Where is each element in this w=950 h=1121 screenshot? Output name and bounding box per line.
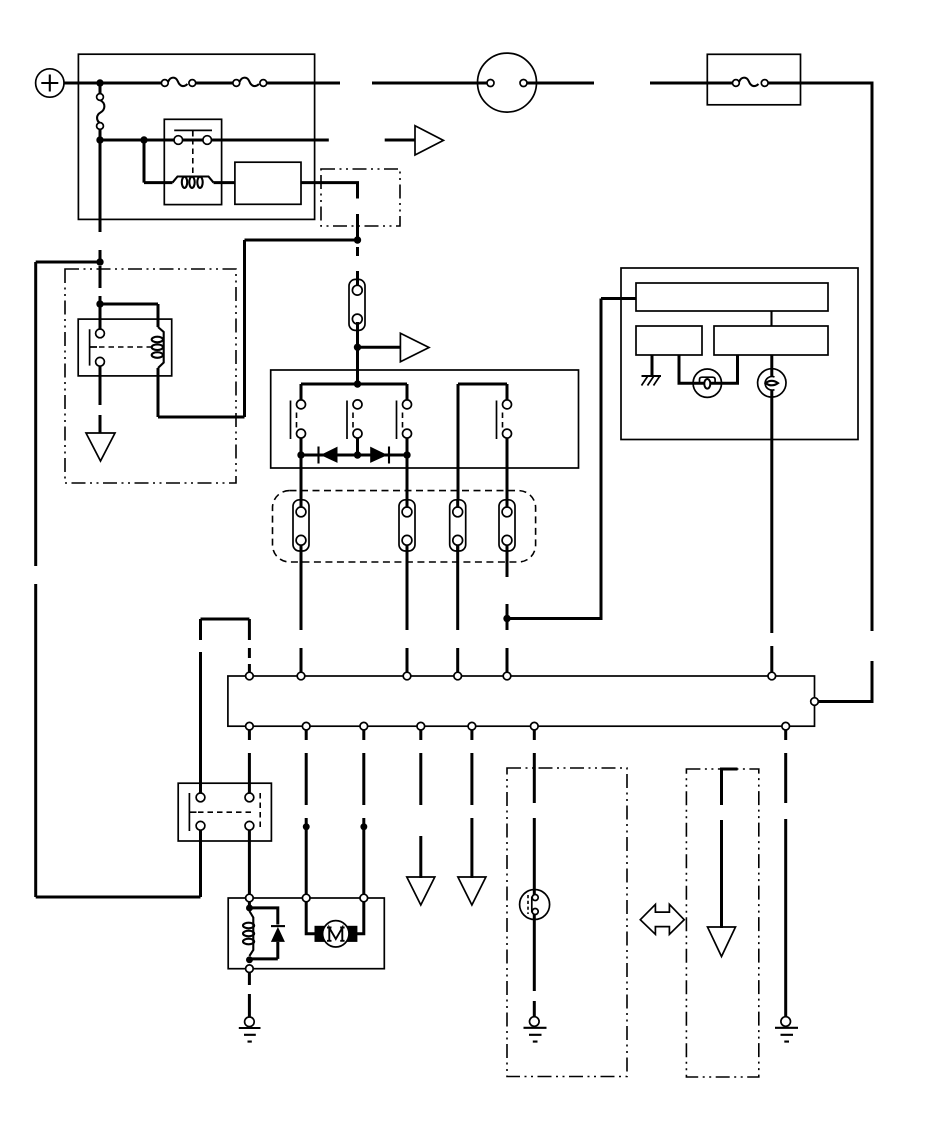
bulb connector (circle) xyxy=(520,890,550,921)
bus terminal bottom 1 xyxy=(246,722,254,730)
relay R3 terminal 2 xyxy=(245,793,254,802)
ground G502 xyxy=(775,1028,798,1042)
node: junction coil feed xyxy=(140,136,147,143)
wire left rect to hatch ground xyxy=(651,355,654,376)
wire right rect to lamp 1 xyxy=(721,355,738,383)
wire connector C2 to bus xyxy=(300,545,303,673)
relay R3 coil link (dashed vertical) xyxy=(259,793,261,831)
relay R1 terminal right xyxy=(203,136,212,145)
dash-dot box (bottom middle) xyxy=(507,768,627,1077)
wire crossover to bus xyxy=(201,619,250,640)
wire coil to control unit xyxy=(214,181,236,184)
wire coil tap to R2 coil xyxy=(100,304,158,327)
switch S3 xyxy=(397,400,412,439)
connector C2 xyxy=(293,500,309,552)
bus terminal bottom 6 xyxy=(531,722,539,730)
node: junction at battery feed xyxy=(96,79,103,86)
wire dashes into bus xyxy=(248,648,251,673)
motor box terminal 2 xyxy=(302,894,310,902)
coil L1 (vertical) xyxy=(243,911,254,956)
wire C1 to junction B xyxy=(356,322,359,351)
wire connector C4 to bus xyxy=(456,545,459,673)
bus terminal right xyxy=(811,698,819,706)
wire bus to arrow 2 xyxy=(470,730,473,878)
node: diode rail junction 1 xyxy=(297,451,304,458)
switch S2 xyxy=(347,400,362,439)
right control box inner rect left xyxy=(636,326,702,355)
diode D2 (pointing right) xyxy=(370,447,389,464)
relay R3 terminal 4 xyxy=(245,821,254,830)
diode rail xyxy=(301,454,407,457)
wire between fuses xyxy=(196,82,233,85)
wire left rect to lamp 1 xyxy=(679,355,694,383)
ground terminal (middle) xyxy=(530,1017,540,1027)
motor box bottom terminal xyxy=(246,965,254,973)
wire bus to R3 top-right xyxy=(248,728,251,794)
wire junction B into switch box xyxy=(356,347,359,384)
wire junction to relay R2 xyxy=(99,266,102,330)
arrow (to page) at relay row xyxy=(385,126,444,155)
wire bus to right ground xyxy=(784,730,787,1017)
relay R3 contact bar xyxy=(189,793,196,831)
arrow down 1 (open triangle) xyxy=(407,877,435,905)
connector group box (dashed) xyxy=(273,491,536,562)
relay R2 box xyxy=(78,319,172,376)
relay R3 terminal 3 xyxy=(196,821,205,830)
ground G401 xyxy=(239,1028,261,1042)
wire R2 switched out to ground arrow xyxy=(99,366,102,433)
bus terminal top 1 xyxy=(246,672,254,680)
wire to break xyxy=(537,82,594,85)
fuse F4 xyxy=(733,78,769,87)
wire relay row xyxy=(100,139,329,142)
node: junction coil tap xyxy=(96,300,103,307)
switch box outline xyxy=(271,370,579,468)
arrow down 3 (open triangle) xyxy=(708,927,736,957)
bus terminal top 2 xyxy=(297,672,305,680)
bus terminal bottom 5 xyxy=(468,722,476,730)
wire terminal2 to motor brush xyxy=(306,902,315,934)
wire switch feed rail xyxy=(301,384,407,401)
wire R3 bottom-left to far-left run xyxy=(199,830,202,897)
right control box inner rect top xyxy=(636,283,828,311)
wire U1 to node, corner down xyxy=(301,183,358,199)
ground terminal (left) xyxy=(245,1017,255,1027)
connector C3 xyxy=(399,500,415,552)
wire bus to bulb connector xyxy=(533,730,536,891)
wire left branch down and to relay R2 coil xyxy=(158,240,245,417)
relay R2 coil (vertical) xyxy=(152,327,164,368)
connector C5 xyxy=(499,500,515,552)
wire far-left drop xyxy=(36,262,201,897)
dash-dot box (relay R2 region) xyxy=(65,269,236,483)
wire junction A to connector C1 xyxy=(356,247,359,288)
bus terminal bottom 2 xyxy=(302,722,310,730)
wire right edge lower segment xyxy=(813,661,872,702)
motor box terminal 3 xyxy=(360,894,368,902)
bus terminal bottom 3 xyxy=(360,722,368,730)
wire junction to far-left drop xyxy=(36,261,100,264)
control unit box U1 xyxy=(235,162,301,204)
relay R1 terminal left xyxy=(174,136,183,145)
connector C4 xyxy=(450,500,466,552)
node: junction A xyxy=(354,236,361,243)
wire 4th column feed xyxy=(458,384,507,503)
node: junction B xyxy=(354,344,361,351)
fuse F1 xyxy=(161,78,195,87)
wire tap to right box xyxy=(507,299,636,619)
relay R3 terminal 1 xyxy=(196,793,205,802)
wires diode rail down to connectors xyxy=(301,455,407,504)
switch S4 xyxy=(497,400,512,439)
bus terminal top 4 xyxy=(454,672,462,680)
relay R1 contact bar xyxy=(174,130,212,136)
lamp L1 (illumination) xyxy=(693,369,721,397)
motor box xyxy=(228,898,384,969)
motor M1 xyxy=(323,921,349,947)
bus terminal top 5 xyxy=(503,672,511,680)
motor box terminal 1 xyxy=(246,894,254,902)
right control box inner rect right xyxy=(714,326,828,355)
double arrow (harness continues) xyxy=(640,904,684,934)
ground G501 xyxy=(524,1028,547,1042)
wire terminal3 to motor brush xyxy=(356,902,363,934)
switch S1 xyxy=(291,400,306,439)
wire motor box to ground xyxy=(248,973,251,1018)
node: junction relay feed xyxy=(96,136,103,143)
ground terminal (right) xyxy=(781,1017,791,1027)
fuse F3 (vertical fusible link) xyxy=(97,87,105,138)
ground arrow (open triangle) under R2 xyxy=(86,433,115,461)
wire to fuse box xyxy=(650,82,733,85)
bus terminal bottom 4 xyxy=(417,722,425,730)
wire switch S4 down to connector xyxy=(506,438,509,504)
node: junction left branch xyxy=(96,258,103,265)
wire terminal1 to coil xyxy=(248,902,251,912)
wire bus to motor right feed xyxy=(362,730,365,895)
node: coil bottom junction xyxy=(246,956,253,963)
wire to relay R1 coil xyxy=(144,140,173,183)
relay R1 contact link (dashed) xyxy=(192,139,194,177)
diode D3 (filled, pointing up) xyxy=(271,927,285,942)
diode D3 (cathode bar) xyxy=(271,925,285,927)
wire fuse to right edge, down xyxy=(768,83,872,631)
fuse box (small, top right) xyxy=(707,54,800,105)
connector C1 xyxy=(349,279,365,330)
relay R3 contact link (dashed) xyxy=(198,811,254,813)
fuse F2 xyxy=(233,78,267,87)
dash-dot box (connector region) top xyxy=(321,169,400,226)
wire R2 coil out, down to horizontal run xyxy=(157,368,160,417)
wire to connector circle xyxy=(372,82,486,85)
wire bus feed from relay1 row down left side xyxy=(99,144,102,263)
fuse box (under-hood) outline xyxy=(78,54,314,219)
diode D1 (pointing left) xyxy=(319,447,338,464)
wire connector C3 to bus xyxy=(406,545,409,673)
dash-dot box (bottom right) xyxy=(686,769,758,1077)
wire to break xyxy=(267,82,340,85)
relay R2 contact bar xyxy=(90,329,97,365)
wire left drop to relay R3 top xyxy=(199,619,202,794)
relay R2 contact link (dashed) xyxy=(99,346,152,348)
bus terminal top 6 xyxy=(768,672,776,680)
wire diode branch bottom xyxy=(249,942,277,959)
bus terminal top 3 xyxy=(403,672,411,680)
relay R1 box xyxy=(164,119,221,204)
node: diode rail junction 2 xyxy=(354,451,361,458)
wire connector C5 to bus xyxy=(506,545,509,673)
relay R2 terminal bottom xyxy=(96,357,105,366)
bus terminal bottom 7 xyxy=(782,722,790,730)
arrow down 2 (open triangle) xyxy=(458,877,486,905)
wire segment into junction xyxy=(356,214,359,243)
wire inner link xyxy=(770,311,772,326)
wire top rect down to lamp 2 xyxy=(770,355,773,369)
bus bar (junction block) xyxy=(228,676,815,726)
wire bus to arrow 1 xyxy=(419,730,422,878)
wire bus to motor left feed xyxy=(305,730,308,895)
battery B+ xyxy=(36,69,64,97)
wire bulb connector to ground xyxy=(533,920,536,1018)
lamp L2 (indicator) xyxy=(758,369,786,398)
connector circle C101 xyxy=(478,53,537,112)
node: junction at right-box tap xyxy=(503,615,510,622)
right control box xyxy=(621,268,858,440)
wire diode branch top xyxy=(249,908,277,925)
node: junction switch feed xyxy=(354,380,361,387)
wire inside bottom-right box xyxy=(722,769,738,928)
wire lamp 2 down to bus xyxy=(770,398,773,673)
motor brush left xyxy=(315,926,326,942)
relay R1 coil xyxy=(173,177,214,188)
relay R3 box xyxy=(178,783,271,841)
arrow (to page) at junction B xyxy=(358,333,430,361)
node: diode rail junction 3 xyxy=(403,451,410,458)
motor brush right xyxy=(347,926,358,942)
node: splice on motor left feed xyxy=(303,823,310,830)
node: splice on motor right feed xyxy=(360,823,367,830)
wire battery to fuse F1 xyxy=(64,82,162,85)
hatched ground xyxy=(642,376,662,386)
wire R3 bottom-right to motor box xyxy=(248,830,251,895)
wire junction A left branch xyxy=(245,239,358,242)
node: coil top junction xyxy=(246,905,253,912)
relay R2 terminal top xyxy=(96,329,105,338)
wire switch outputs to diode rail xyxy=(301,438,407,455)
